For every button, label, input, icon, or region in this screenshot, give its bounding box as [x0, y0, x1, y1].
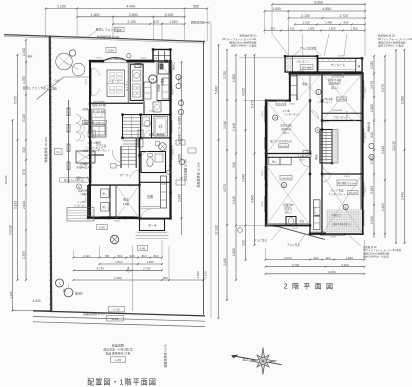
svg-text:CH=2400: CH=2400: [281, 178, 291, 180]
svg-text:2.015: 2.015: [178, 76, 182, 84]
svg-text:1.600: 1.600: [91, 13, 100, 17]
svg-text:810: 810: [142, 254, 147, 258]
svg-text:910: 910: [242, 240, 246, 246]
svg-text:1.820: 1.820: [232, 248, 236, 256]
svg-text:散水栓: 散水栓: [75, 292, 83, 296]
svg-text:16013: 16013: [292, 228, 298, 230]
svg-text:16013: 16013: [149, 111, 155, 113]
svg-text:4.760: 4.760: [22, 76, 26, 84]
svg-text:3Sライトフォーム スーパーE1: 3Sライトフォーム スーパーE1: [222, 37, 257, 41]
svg-text:640: 640: [344, 21, 349, 25]
svg-text:受水: 受水: [116, 28, 122, 32]
svg-text:2.420: 2.420: [22, 201, 26, 209]
svg-text:4.640: 4.640: [127, 266, 131, 273]
svg-text:4.400: 4.400: [127, 5, 136, 9]
svg-text:870: 870: [153, 20, 159, 24]
svg-text:雨樋位置: 雨樋位置: [367, 122, 371, 133]
svg-text:655: 655: [193, 5, 199, 9]
svg-text:2.440: 2.440: [381, 146, 385, 154]
svg-text:1.940: 1.940: [370, 216, 374, 224]
svg-text:4.730: 4.730: [97, 267, 105, 271]
svg-text:16013: 16013: [344, 176, 350, 178]
svg-text:2.125: 2.125: [127, 20, 135, 24]
svg-text:5.475: 5.475: [251, 100, 255, 108]
svg-text:3.185: 3.185: [370, 186, 374, 194]
svg-text:真北: 真北: [242, 356, 249, 361]
svg-text:4.850: 4.850: [323, 7, 332, 11]
svg-text:1.810: 1.810: [115, 260, 123, 264]
svg-text:16013: 16013: [96, 57, 102, 59]
svg-text:3.975: 3.975: [370, 81, 374, 89]
svg-text:樹木: 樹木: [28, 54, 33, 58]
svg-text:+遮角: +遮角: [82, 107, 89, 111]
svg-text:堀ごたつ(L字型1-右): 堀ごたつ(L字型1-右): [270, 139, 292, 143]
svg-text:1.820: 1.820: [178, 116, 182, 124]
svg-text:遮熱 0.04W/m・K 相当: 遮熱 0.04W/m・K 相当: [231, 44, 257, 48]
svg-text:16013: 16013: [338, 56, 344, 58]
svg-text:ベッド予定: ベッド予定: [331, 189, 344, 193]
svg-text:6.450: 6.450: [114, 276, 122, 280]
svg-text:CH=2400: CH=2400: [276, 103, 286, 105]
svg-text:6.45: 6.45: [140, 247, 146, 251]
svg-text:G-25: G-25: [112, 317, 119, 321]
svg-text:1.100: 1.100: [57, 5, 66, 9]
svg-text:断熱改修 壁 (2): 断熱改修 壁 (2): [378, 34, 395, 38]
svg-text:CH=2400: CH=2400: [348, 193, 357, 195]
svg-text:サンルーム: サンルーム: [331, 62, 345, 67]
svg-text:3Sライトフォーム スーパーE1: 3Sライトフォーム スーパーE1: [378, 37, 412, 41]
svg-text:16013: 16013: [299, 160, 305, 162]
svg-text:16013: 16013: [85, 196, 87, 202]
svg-text:(CH=2400): (CH=2400): [332, 110, 343, 112]
svg-text:2.110: 2.110: [83, 254, 90, 258]
svg-text:1.820: 1.820: [370, 156, 374, 164]
svg-text:入: 入: [58, 281, 61, 285]
svg-text:幅員 豊栄寺町1丁目: 幅員 豊栄寺町1丁目: [106, 352, 131, 356]
svg-text:910: 910: [270, 27, 275, 31]
svg-text:隣地境界線 18.105: 隣地境界線 18.105: [43, 137, 48, 162]
svg-text:1.820: 1.820: [346, 256, 354, 260]
svg-text:1.820: 1.820: [178, 154, 182, 162]
svg-text:6.06: 6.06: [108, 49, 114, 53]
svg-text:道路境界線 4.375: 道路境界線 4.375: [163, 344, 168, 368]
svg-text:イフ7B: イフ7B: [77, 200, 85, 204]
svg-text:16013: 16013: [262, 169, 264, 175]
svg-text:アンカーエット: アンカーエット: [85, 145, 103, 149]
svg-text:2.600: 2.600: [129, 13, 138, 17]
svg-text:3.100: 3.100: [341, 263, 349, 267]
svg-text:5.195: 5.195: [14, 201, 18, 209]
svg-text:5.075: 5.075: [14, 96, 18, 104]
svg-text:アルミ笠木隠: アルミ笠木隠: [300, 47, 317, 51]
svg-text:(洋室2): (洋室2): [284, 206, 292, 210]
svg-text:L-25: L-25: [115, 358, 121, 362]
svg-text:4.015: 4.015: [242, 88, 246, 96]
svg-text:(収納&1): (収納&1): [281, 127, 291, 131]
svg-text:和室0.8帖: 和室0.8帖: [78, 189, 89, 193]
svg-text:16013: 16013: [365, 86, 367, 92]
svg-text:洗濯物干場 4.240: 洗濯物干場 4.240: [97, 34, 120, 39]
svg-text:910: 910: [314, 256, 319, 260]
svg-text:浴室乾燥機 18.130: 浴室乾燥機 18.130: [184, 159, 188, 181]
svg-text:H: H: [151, 77, 154, 82]
svg-text:12.190: 12.190: [215, 225, 219, 235]
svg-text:EC: EC: [179, 141, 183, 145]
svg-text:配置図・1階平面図: 配置図・1階平面図: [87, 378, 157, 387]
svg-text:16013: 16013: [173, 88, 175, 94]
svg-text:ポーチ: ポーチ: [148, 222, 157, 227]
svg-text:目隠しフェンス: 目隠しフェンス: [23, 85, 44, 90]
svg-text:インターネット: インターネット: [284, 112, 301, 116]
svg-text:12.045: 12.045: [392, 141, 396, 151]
svg-text:1.035: 1.035: [370, 61, 374, 69]
svg-text:2.010: 2.010: [284, 256, 292, 260]
svg-text:1.060: 1.060: [401, 96, 405, 104]
svg-text:1.485: 1.485: [325, 21, 333, 25]
svg-text:遮熱 0.04W/m・K 相当: 遮熱 0.04W/m・K 相当: [378, 44, 404, 48]
svg-text:断熱改修 壁 (2): 断熱改修 壁 (2): [240, 34, 257, 38]
svg-text:CH=2400: CH=2400: [333, 75, 342, 77]
svg-text:1.820: 1.820: [329, 27, 336, 31]
svg-text:5.015: 5.015: [22, 114, 26, 122]
svg-text:玄関: 玄関: [147, 194, 153, 199]
svg-text:L D 13.4帖: L D 13.4帖: [90, 109, 106, 114]
svg-text:道路境界線 6.470: 道路境界線 6.470: [83, 312, 105, 316]
svg-text:CH=2400: CH=2400: [279, 146, 289, 148]
svg-text:ベビーカー: ベビーカー: [109, 79, 123, 83]
svg-text:16013: 16013: [262, 200, 264, 206]
svg-text:16013: 16013: [323, 122, 329, 124]
svg-text:16013: 16013: [140, 57, 146, 59]
svg-text:1.600: 1.600: [272, 7, 281, 11]
svg-text:2.100: 2.100: [301, 14, 310, 18]
svg-text:16013: 16013: [262, 110, 264, 116]
svg-text:2.449: 2.449: [401, 192, 405, 200]
svg-text:隣地境界線 12.190: 隣地境界線 12.190: [196, 162, 201, 187]
svg-text:16013: 16013: [289, 104, 295, 106]
svg-text:1.485: 1.485: [308, 27, 315, 31]
svg-text:(詳し): (詳し): [283, 131, 290, 135]
svg-text:2.720: 2.720: [340, 14, 349, 18]
svg-text:1.910: 1.910: [22, 48, 26, 56]
svg-text:3.640: 3.640: [251, 195, 255, 203]
svg-text:(断改) 50mm 断熱等性能: (断改) 50mm 断熱等性能: [229, 40, 257, 44]
svg-text:アンダーカット: アンダーカット: [328, 192, 346, 196]
svg-text:810: 810: [154, 254, 159, 258]
svg-text:(断改) 50mm 断熱等性能: (断改) 50mm 断熱等性能: [378, 40, 406, 44]
svg-text:14.010: 14.010: [9, 225, 13, 235]
svg-text:3.345: 3.345: [9, 291, 13, 299]
svg-text:隣地境界線=810: 隣地境界線=810: [191, 21, 212, 25]
svg-text:ホール: ホール: [313, 206, 317, 214]
svg-text:遮熱 0.04W/(m・K) 相当: 遮熱 0.04W/(m・K) 相当: [363, 255, 390, 259]
svg-text:6.45: 6.45: [99, 226, 105, 230]
svg-text:910: 910: [232, 162, 236, 168]
svg-text:手洗: 手洗: [299, 219, 304, 223]
svg-text:洋室 8.1帖 (詳し): 洋室 8.1帖 (詳し): [332, 222, 350, 226]
svg-text:3.700: 3.700: [292, 263, 300, 267]
svg-text:ホール: ホール: [120, 172, 129, 177]
svg-text:2.449: 2.449: [381, 203, 385, 211]
svg-text:1.395: 1.395: [22, 251, 26, 259]
svg-text:1.015: 1.015: [302, 21, 310, 25]
svg-text:800: 800: [163, 276, 168, 280]
svg-text:1.820: 1.820: [169, 20, 177, 24]
svg-text:アプ口: アプ口: [80, 162, 88, 166]
svg-text:洗面・脱衣室: 洗面・脱衣室: [149, 132, 165, 136]
svg-text:L-25: L-25: [113, 308, 119, 312]
svg-text:(詳し): (詳し): [285, 210, 292, 214]
svg-text:16013: 16013: [365, 186, 367, 192]
svg-text:(配膳 造作棚): (配膳 造作棚): [92, 103, 106, 107]
svg-text:6.650: 6.650: [314, 0, 323, 4]
svg-text:勝手口: 勝手口: [172, 62, 176, 70]
svg-text:16013: 16013: [85, 78, 87, 84]
svg-text:3.640: 3.640: [242, 174, 246, 182]
svg-text:5.975: 5.975: [381, 84, 385, 92]
svg-text:910: 910: [370, 132, 374, 138]
svg-text:バルコニー: バルコニー: [296, 59, 310, 63]
svg-text:2.200: 2.200: [165, 13, 174, 17]
svg-text:CH=2400: CH=2400: [337, 99, 346, 101]
svg-text:4.075: 4.075: [223, 184, 227, 192]
svg-text:16013: 16013: [330, 237, 336, 239]
svg-text:1.820: 1.820: [351, 27, 358, 31]
svg-text:4.440: 4.440: [33, 299, 41, 303]
svg-text:2.730: 2.730: [143, 267, 151, 271]
svg-text:2.910: 2.910: [223, 121, 227, 129]
svg-text:目隠しフェンス: 目隠しフェンス: [96, 27, 117, 32]
svg-text:イナバ物置: イナバ物置: [87, 141, 101, 145]
svg-text:5.640: 5.640: [215, 86, 219, 94]
svg-text:キッチン: キッチン: [125, 80, 129, 91]
svg-text:700: 700: [104, 254, 109, 258]
svg-text:(勾配天井): (勾配天井): [328, 82, 340, 86]
svg-text:2.440: 2.440: [232, 123, 236, 131]
svg-text:910: 910: [22, 147, 26, 153]
svg-text:2.440: 2.440: [223, 258, 227, 266]
svg-text:2.440: 2.440: [178, 194, 182, 202]
svg-text:10.010: 10.010: [4, 175, 8, 184]
svg-text:2.730: 2.730: [223, 71, 227, 79]
svg-text:2 階 平 面 図: 2 階 平 面 図: [284, 282, 334, 291]
svg-text:アルミ笠木: アルミ笠木: [254, 239, 267, 243]
svg-text:16013: 16013: [365, 132, 367, 138]
svg-text:6.450: 6.450: [328, 270, 336, 274]
svg-text:16013: 16013: [85, 118, 87, 124]
svg-text:810: 810: [118, 254, 123, 258]
svg-text:16013: 16013: [114, 221, 120, 223]
svg-text:洋室4.5帖: 洋室4.5帖: [280, 124, 292, 128]
svg-text:16013: 16013: [298, 71, 304, 73]
svg-text:出窓: 出窓: [114, 57, 119, 61]
svg-text:870: 870: [22, 169, 26, 175]
svg-text:910: 910: [326, 256, 331, 260]
svg-text:1.820: 1.820: [232, 74, 236, 82]
svg-text:児童室B: 児童室B: [283, 203, 293, 207]
svg-text:寝室 8.1帖: 寝室 8.1帖: [328, 78, 341, 82]
svg-text:4.990: 4.990: [196, 271, 200, 279]
svg-text:1.820: 1.820: [370, 104, 374, 112]
svg-text:2.440: 2.440: [232, 196, 236, 204]
svg-text:5.130: 5.130: [204, 271, 208, 279]
svg-text:16013: 16013: [173, 148, 175, 154]
svg-text:乾燥機: 乾燥機: [157, 84, 161, 92]
svg-text:(詳し): (詳し): [331, 85, 338, 89]
svg-text:1.823: 1.823: [146, 260, 154, 264]
svg-text:吹抜: 吹抜: [314, 154, 318, 160]
svg-text:冷蔵庫: 冷蔵庫: [161, 78, 165, 86]
